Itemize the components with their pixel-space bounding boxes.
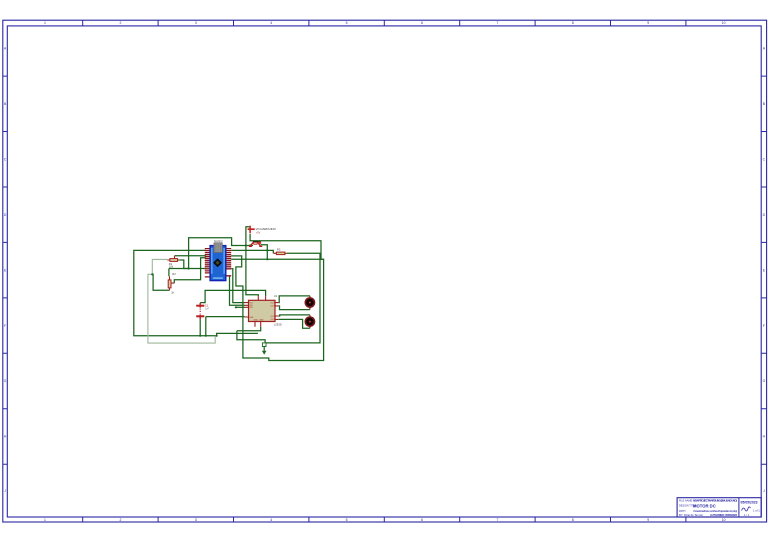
svg-text:7: 7 [496,21,498,25]
svg-text:D: D [763,213,766,217]
svg-text:E: E [763,268,766,272]
svg-text:1: 1 [44,21,46,25]
wire arduino D12 to chip IN2 [230,276,245,306]
svg-text:10k: 10k [169,265,174,269]
svg-text:H: H [4,435,7,439]
light green wire net [148,259,215,343]
svg-text:C:\Users\User\Documents\New Pr: C:\Users\User\Documents\New Project ardu… [693,509,737,513]
svg-text:AUTHORED: 05/05/2023: AUTHORED: 05/05/2023 [710,513,738,517]
wire cap right to chip EN pin [206,317,245,336]
svg-text:8: 8 [572,518,574,522]
wire cap bottom to gnd loop [199,319,201,336]
svg-text:10: 10 [722,21,726,25]
svg-text:J: J [763,489,765,493]
svg-text:9: 9 [647,21,649,25]
wire cap top to chip VSS rail [200,290,265,302]
svg-text:5: 5 [346,21,348,25]
motor M2 [305,315,314,328]
svg-text:6: 6 [421,21,423,25]
svg-text:G: G [763,379,766,383]
svg-text:OUT3: OUT3 [271,316,277,318]
arduino nano module [205,239,231,281]
svg-text:L293D: L293D [274,323,282,327]
svg-text:VCC/ARDUINO: VCC/ARDUINO [256,227,277,231]
svg-text:OUT1: OUT1 [271,302,277,304]
svg-text:B: B [4,102,7,106]
svg-text:C: C [4,157,7,161]
ground arrow [262,351,267,355]
svg-text:5: 5 [346,518,348,522]
svg-text:E: E [4,268,7,272]
svg-text:8: 8 [572,21,574,25]
CIRCUIT [134,226,324,361]
wire arduino D11 to chip IN1 [231,269,244,303]
svg-text:GND: GND [254,320,259,322]
svg-text:C: C [763,157,766,161]
svg-text:R2: R2 [172,272,176,276]
svg-text:NEW PROJECT IN ARDUINO (SIMULI: NEW PROJECT IN ARDUINO (SIMULINO UNO) [693,499,737,503]
IC U1 L293D [245,294,282,327]
resistor R3 [273,248,287,255]
svg-text:1nF: 1nF [205,307,210,310]
svg-text:PATH:: PATH: [679,510,686,513]
svg-text:G: G [4,379,7,383]
wire R1 right to top loop and button [179,238,253,269]
svg-text:2: 2 [119,518,121,522]
svg-text:NANO: NANO [214,239,223,243]
wire power terminal elbow [246,227,250,246]
svg-text:GND: GND [259,320,264,322]
svg-text:F: F [763,324,765,328]
wire R1/R2 node to arduino analog pin [169,269,206,277]
svg-text:6: 6 [421,518,423,522]
wire chip OUT1 to motor1 top [279,296,310,303]
svg-text:J: J [4,489,6,493]
svg-text:9: 9 [647,518,649,522]
svg-text:7: 7 [496,518,498,522]
button/switch [249,241,262,246]
svg-text:A: A [4,47,7,51]
svg-text:05/05/2023: 05/05/2023 [741,500,758,504]
svg-text:4: 4 [270,21,272,25]
svg-text:BY: Rizal de Tarmizi: BY: Rizal de Tarmizi [679,513,703,517]
svg-text:U1: U1 [274,294,278,298]
wire chip gnd second strand [237,327,261,331]
wire R3 to ground square [266,253,320,343]
svg-text:OUT4: OUT4 [271,319,277,321]
wire R2 wiper to arduino pin [174,258,206,283]
ground lead [263,347,265,351]
svg-text:H: H [763,435,766,439]
wire gnd net jog to ground terminal [237,331,265,343]
svg-text:A: A [763,47,766,51]
wire big left loop: arduino pin D2 to L293D GND [134,250,258,335]
wire R1 top stub to arduino pin [175,255,206,257]
motor M1 [305,296,314,310]
wire chip OUT4 to motor2 bottom [279,319,310,328]
svg-text:1 of 1: 1 of 1 [753,509,760,513]
svg-text:4: 4 [270,518,272,522]
svg-text:3: 3 [195,21,197,25]
svg-text:+5V: +5V [256,231,261,234]
title block [677,498,761,518]
svg-text:FILE NAME:: FILE NAME: [679,499,693,502]
ground terminal square [262,343,266,347]
svg-text:2: 2 [119,21,121,25]
junction dots [151,244,268,336]
resistor R2 [168,272,176,294]
capacitor C1 (power flag pair) [196,303,209,319]
wire chip OUT3 to motor2 top [279,315,310,316]
svg-text:D: D [4,213,7,217]
svg-text:R3: R3 [277,248,281,252]
wire 5V net long route [231,234,323,361]
svg-text:MOTOR DC: MOTOR DC [693,504,716,509]
wire VIN rail [231,258,323,260]
wire button right leg down [261,245,268,259]
svg-text:F: F [4,324,6,328]
wire chip IN3 stub [236,306,245,308]
wire 5V branch to chip VS pin [246,246,258,297]
svg-text:1: 1 [44,518,46,522]
wire chip OUT2 to motor1 bottom [279,306,310,310]
svg-text:1 / 1: 1 / 1 [744,513,750,517]
svg-text:3: 3 [195,518,197,522]
svg-text:1k: 1k [171,290,174,294]
wire arduino D10 to R3 [231,250,273,253]
wire R2 bottom to light-green net [152,274,169,290]
resistor R1 [167,256,179,269]
svg-text:OUT2: OUT2 [271,306,277,308]
svg-text:10: 10 [722,518,726,522]
power terminal VCC [248,226,277,235]
svg-text:B: B [763,102,766,106]
